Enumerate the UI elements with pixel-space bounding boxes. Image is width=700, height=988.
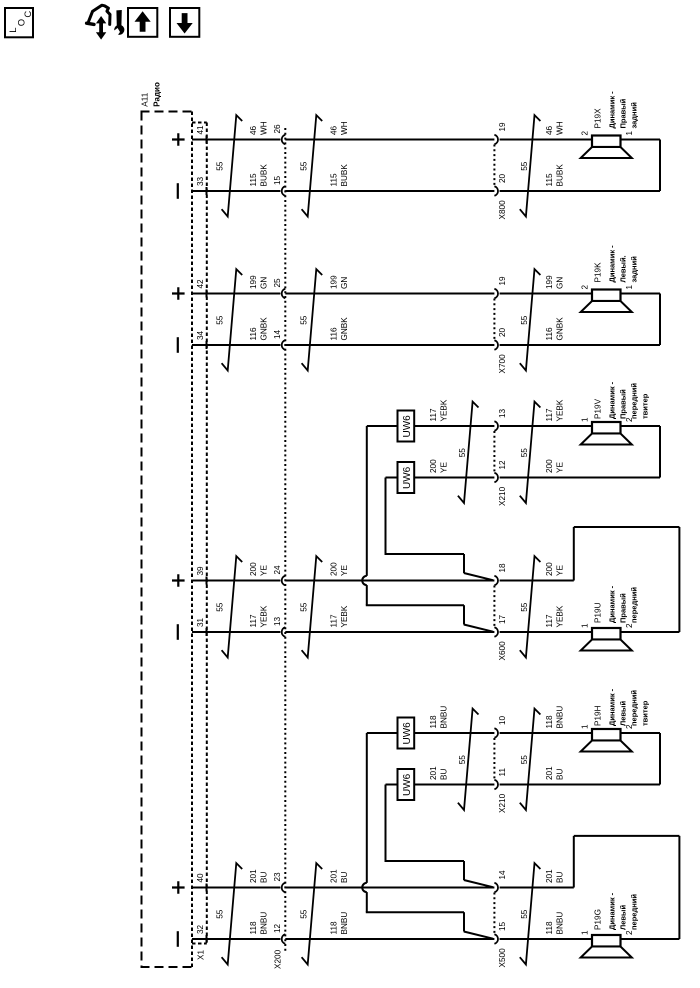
svg-text:UW6: UW6 — [402, 773, 413, 796]
label P19K designator — [594, 262, 603, 283]
label 55 twists radio-X200 — [216, 315, 225, 325]
label 55 twists radio-X200 — [216, 161, 225, 171]
wire 46 WH segment radio-X200 — [192, 139, 280, 141]
svg-text:46: 46 — [249, 125, 258, 135]
wire labels 118 BNBU/201 BU UW6-X210 — [429, 706, 449, 780]
label P19G designator — [594, 909, 603, 930]
pin 25 label — [273, 278, 282, 288]
svg-text:55: 55 — [458, 448, 467, 458]
wire 116 GNBK segment radio-X200 — [192, 344, 280, 346]
label X210 — [498, 793, 507, 813]
wire 199 GN segment radio-X200 — [192, 293, 280, 295]
label P19H designator — [594, 705, 603, 726]
svg-text:11: 11 — [498, 768, 507, 777]
wire labels 201 BU/118 BNBU seg B — [330, 869, 350, 935]
pin tick 39 — [206, 577, 208, 585]
pin 1 label at P19K — [625, 285, 634, 290]
splice branch wire 118 BNBU jog to pin 15 — [366, 912, 493, 939]
wire return vertical — [659, 294, 661, 346]
pin 18 label — [498, 563, 507, 573]
svg-text:Правый: Правый — [619, 389, 628, 419]
label P19V designator — [594, 398, 603, 419]
label X200 — [274, 949, 283, 969]
svg-text:118: 118 — [545, 715, 554, 728]
svg-text:P19X: P19X — [594, 108, 603, 129]
svg-text:55: 55 — [300, 602, 309, 612]
svg-text:115: 115 — [330, 173, 339, 186]
pin 39 label — [196, 566, 205, 576]
label 55 twists UW6-X210 — [458, 448, 467, 458]
wire 117 YEBK segment radio-X200 — [192, 631, 280, 633]
wire labels 201 BU/118 BNBU seg A — [249, 869, 269, 935]
svg-text:UW6: UW6 — [402, 415, 413, 438]
twisted pair marker after X210 — [520, 709, 541, 810]
svg-text:12: 12 — [498, 460, 507, 470]
twisted pair marker after X500 — [520, 863, 541, 964]
twisted pair marker after X700 — [520, 269, 541, 370]
svg-text:55: 55 — [216, 602, 225, 612]
speaker P19K — [581, 290, 632, 313]
svg-text:115: 115 — [545, 173, 554, 186]
connector X500 pin 15 terminal — [494, 934, 498, 944]
splice branch wire 201 BU jog to pin 14 — [385, 861, 494, 887]
label 55 twists after X500 — [520, 909, 529, 919]
svg-text:55: 55 — [458, 755, 467, 765]
svg-text:BUBK: BUBK — [260, 164, 269, 187]
pin tick 34 — [206, 341, 208, 349]
svg-text:42: 42 — [196, 279, 205, 289]
wire 115 BUBK segment X800-return — [500, 190, 660, 192]
svg-text:19: 19 — [498, 276, 507, 286]
pin 42 label — [196, 279, 205, 289]
pin 2 label at P19V — [625, 417, 634, 422]
svg-text:201: 201 — [545, 766, 554, 780]
svg-text:199: 199 — [330, 275, 339, 289]
connector X210 dotted line — [493, 431, 495, 473]
wire labels 118 BNBU/201 BU seg C — [545, 706, 565, 780]
label 55 twists after X600 — [520, 602, 529, 612]
label A11 — [141, 92, 150, 106]
svg-text:201: 201 — [545, 869, 554, 883]
svg-text:200: 200 — [330, 562, 339, 576]
pin tick 33 — [206, 187, 208, 195]
pin 1 label at P19G — [581, 930, 590, 935]
svg-text:BUBK: BUBK — [340, 164, 349, 187]
pin 2 label at P19X — [581, 131, 590, 136]
wire 116 GNBK segment X700-return — [500, 344, 660, 346]
wire 117 YEBK segment X210-speaker — [500, 425, 592, 427]
pin 2 label at P19U — [625, 623, 634, 628]
radio pin + (terminal 41) — [172, 133, 185, 146]
connector X1 dashed box — [192, 123, 207, 944]
svg-text:55: 55 — [520, 755, 529, 765]
splice branch wire 200 YE vertical (UW6 lower) — [386, 478, 398, 555]
twisted pair marker radio-X200 — [222, 269, 243, 370]
svg-text:17: 17 — [498, 614, 507, 624]
pin 14 label — [498, 870, 507, 880]
wire 46 WH segment X200-X800 — [285, 139, 494, 141]
wire labels 199 GN/116 GNBK seg C — [545, 275, 565, 341]
pin 24 label — [273, 565, 282, 575]
label X700 — [498, 354, 507, 374]
svg-text:BU: BU — [340, 872, 349, 883]
wire 201 BU segment X210-return — [500, 784, 660, 786]
wire 200 YE segment X200-X600 — [285, 580, 494, 582]
svg-text:YEBK: YEBK — [340, 605, 349, 627]
label X800 — [498, 200, 507, 220]
wire loop top — [574, 526, 680, 528]
connector X200 pin 13 terminal — [282, 627, 286, 637]
svg-text:BUBK: BUBK — [556, 164, 565, 187]
svg-text:BNBU: BNBU — [340, 912, 349, 935]
svg-text:55: 55 — [520, 909, 529, 919]
svg-text:X600: X600 — [498, 641, 507, 661]
speaker P19X — [581, 136, 632, 159]
svg-text:задний: задний — [630, 102, 639, 129]
label P19K description — [608, 245, 639, 283]
svg-text:P19G: P19G — [594, 909, 603, 930]
label X500 — [498, 948, 507, 968]
twisted pair marker X200-X500 — [302, 863, 323, 964]
pin 12 label — [273, 923, 282, 933]
label P19X description — [608, 91, 639, 129]
icon scroll-down button — [170, 8, 199, 37]
svg-text:55: 55 — [300, 909, 309, 919]
svg-text:55: 55 — [300, 315, 309, 325]
wire loop left vertical — [573, 527, 575, 581]
svg-text:передний: передний — [630, 383, 639, 419]
svg-text:201: 201 — [429, 766, 438, 780]
svg-text:UW6: UW6 — [402, 466, 413, 489]
wire 46 WH segment X800-speaker — [500, 139, 592, 141]
svg-text:18: 18 — [498, 563, 507, 573]
splice UW6 (upper) — [398, 411, 415, 442]
label P19H description — [608, 688, 650, 726]
svg-text:YEBK: YEBK — [556, 605, 565, 627]
svg-text:14: 14 — [498, 870, 507, 880]
svg-text:116: 116 — [330, 327, 339, 340]
svg-text:2: 2 — [581, 131, 590, 136]
svg-text:13: 13 — [498, 408, 507, 418]
pin 20 label — [498, 327, 507, 337]
label 55 twists after X210 — [520, 448, 529, 458]
svg-text:GNBK: GNBK — [556, 317, 565, 341]
svg-text:26: 26 — [273, 124, 282, 134]
twisted pair marker after X210 — [520, 402, 541, 503]
wire labels 199 GN/116 GNBK seg B — [330, 275, 350, 341]
pin tick 31 — [206, 628, 208, 636]
label 55 twists X200-X700 — [300, 315, 309, 325]
svg-text:31: 31 — [196, 617, 205, 627]
radio pin + (terminal 40) — [172, 881, 185, 894]
pin tick 41 — [206, 136, 208, 144]
svg-text:задний: задний — [630, 256, 639, 283]
svg-text:24: 24 — [273, 565, 282, 575]
svg-text:20: 20 — [498, 173, 507, 183]
svg-text:WH: WH — [340, 121, 349, 135]
wire 201 BU segment radio-X200 — [192, 887, 280, 889]
radio pin + (terminal 39) — [172, 574, 185, 587]
svg-text:118: 118 — [330, 921, 339, 934]
svg-text:34: 34 — [196, 330, 205, 340]
svg-text:Правый: Правый — [619, 593, 628, 623]
svg-text:117: 117 — [545, 408, 554, 421]
connector X700 pin 19 terminal — [494, 289, 498, 299]
pin 23 label — [273, 872, 282, 882]
wire 117 YEBK speaker to return — [621, 425, 661, 427]
svg-text:46: 46 — [330, 125, 339, 135]
connector X600 pin 18 terminal — [494, 576, 498, 586]
label X1 — [197, 950, 206, 960]
svg-text:115: 115 — [249, 173, 258, 186]
pin 33 label — [196, 176, 205, 186]
svg-text:P19V: P19V — [594, 398, 603, 419]
pin 10 label — [498, 715, 507, 725]
splice branch wire 201 BU vertical (UW6 lower) — [386, 785, 398, 862]
svg-text:YE: YE — [440, 462, 449, 473]
wire 116 GNBK segment X200-X700 — [285, 344, 494, 346]
icon LOC box — [5, 8, 34, 37]
connector X800 dotted line — [493, 145, 495, 187]
wire 201 BU UW6-X210 — [414, 784, 494, 786]
pin tick 40 — [206, 884, 208, 892]
svg-text:Радио: Радио — [153, 82, 162, 107]
label P19U designator — [594, 602, 603, 623]
pin 11 label — [498, 768, 507, 777]
svg-text:55: 55 — [520, 315, 529, 325]
wire 117 YEBK segment X200-X600 — [285, 631, 494, 633]
svg-text:BU: BU — [260, 872, 269, 883]
svg-text:X210: X210 — [498, 486, 507, 506]
pin 1 label at P19X — [625, 131, 634, 136]
svg-text:200: 200 — [429, 459, 438, 473]
svg-text:YEBK: YEBK — [440, 399, 449, 421]
pin 19 label — [498, 276, 507, 286]
svg-text:1: 1 — [625, 285, 634, 290]
connector X200 pin 24 terminal — [282, 576, 286, 586]
label 55 twists radio-X200 — [216, 909, 225, 919]
wire labels 200 YE/117 YEBK seg C — [545, 562, 565, 628]
pin tick 32 — [206, 935, 208, 943]
svg-text:15: 15 — [273, 175, 282, 185]
wire 118 BNBU speaker to return — [621, 732, 661, 734]
wire 199 GN segment X700-speaker — [500, 293, 592, 295]
svg-text:BNBU: BNBU — [440, 706, 449, 729]
pin 17 label — [498, 614, 507, 624]
wire labels 200 YE/117 YEBK seg B — [330, 562, 350, 628]
wire 199 GN speaker to return — [621, 293, 661, 295]
svg-text:YEBK: YEBK — [556, 399, 565, 421]
label 55 twists UW6-X210 — [458, 755, 467, 765]
svg-text:Динамик -: Динамик - — [608, 585, 617, 623]
svg-text:YE: YE — [556, 462, 565, 473]
connector X700 dotted line — [493, 299, 495, 341]
wire return vertical — [659, 140, 661, 192]
svg-text:15: 15 — [498, 921, 507, 931]
svg-text:P19H: P19H — [594, 705, 603, 726]
svg-text:BU: BU — [556, 872, 565, 883]
svg-text:BNBU: BNBU — [556, 912, 565, 935]
pin 1 label at P19V — [581, 417, 590, 422]
svg-text:116: 116 — [545, 327, 554, 340]
splice UW6 (lower) — [398, 769, 415, 800]
svg-text:X500: X500 — [498, 948, 507, 968]
svg-text:200: 200 — [545, 459, 554, 473]
svg-text:55: 55 — [520, 602, 529, 612]
wire 117 YEBK UW6-X210 — [414, 425, 494, 427]
svg-text:X210: X210 — [498, 793, 507, 813]
connector X500 dotted line — [493, 893, 495, 935]
wire speaker pin2 to loop — [621, 938, 680, 940]
svg-text:117: 117 — [429, 408, 438, 421]
wire hop over 201 BU — [362, 883, 367, 892]
wire labels 200 YE/117 YEBK seg A — [249, 562, 269, 628]
svg-text:передний: передний — [630, 894, 639, 930]
wire labels 199 GN/116 GNBK seg A — [249, 275, 269, 341]
svg-text:2: 2 — [581, 285, 590, 290]
svg-text:L: L — [8, 28, 19, 33]
pin 34 label — [196, 330, 205, 340]
pin 41 label — [196, 125, 205, 135]
svg-text:Правый: Правый — [619, 98, 628, 128]
wire labels 46 WH/115 BUBK seg C — [545, 121, 565, 186]
svg-text:YEBK: YEBK — [260, 605, 269, 627]
connector X210 pin 11 terminal — [494, 780, 498, 790]
svg-text:BU: BU — [556, 769, 565, 780]
svg-text:X800: X800 — [498, 200, 507, 220]
twisted pair marker X200-X800 — [302, 115, 323, 216]
svg-text:BNBU: BNBU — [556, 706, 565, 729]
wire 118 BNBU segment radio-X200 — [192, 938, 280, 940]
wire 201 BU segment X200-X500 — [285, 887, 494, 889]
pin 15 label — [273, 175, 282, 185]
pin 15 label — [498, 921, 507, 931]
svg-text:55: 55 — [216, 161, 225, 171]
pin 12 label — [498, 460, 507, 470]
svg-text:YE: YE — [556, 565, 565, 576]
splice branch wire 200 YE jog to pin 18 — [385, 554, 494, 580]
label 55 twists X200-X600 — [300, 602, 309, 612]
svg-text:1: 1 — [625, 131, 634, 136]
splice UW6 (upper) — [398, 718, 415, 749]
label P19V description — [608, 381, 650, 419]
svg-text:55: 55 — [300, 161, 309, 171]
svg-text:1: 1 — [581, 623, 590, 628]
svg-text:GN: GN — [340, 277, 349, 289]
wire labels 46 WH/115 BUBK seg A — [249, 121, 269, 186]
pin tick 42 — [206, 290, 208, 298]
wire 46 WH speaker to return — [621, 139, 661, 141]
svg-text:Динамик -: Динамик - — [608, 688, 617, 726]
speaker P19G — [581, 935, 632, 958]
speaker P19H — [581, 729, 632, 752]
label 55 twists after X700 — [520, 315, 529, 325]
connector X200 pin 25 terminal — [282, 289, 286, 299]
svg-text:20: 20 — [498, 327, 507, 337]
label 55 twists X200-X800 — [300, 161, 309, 171]
svg-text:Левый.: Левый. — [619, 255, 628, 282]
twisted pair marker X200-X600 — [302, 556, 323, 657]
svg-text:YE: YE — [340, 565, 349, 576]
svg-text:GNBK: GNBK — [260, 317, 269, 341]
connector X210 pin 13 terminal — [494, 421, 498, 431]
wire 117 YEBK segment X600-speaker — [500, 631, 592, 633]
connector X200 pin 23 terminal — [282, 883, 286, 893]
radio pin - (terminal 32) — [177, 931, 179, 947]
svg-text:A11: A11 — [141, 92, 150, 106]
connector X210 dotted line — [493, 738, 495, 780]
radio pin - (terminal 33) — [177, 183, 179, 199]
label P19U description — [608, 585, 639, 623]
wire loop left vertical — [573, 836, 575, 888]
svg-text:1: 1 — [581, 724, 590, 729]
svg-text:13: 13 — [273, 616, 282, 626]
wire 200 YE segment X600-loop — [500, 580, 574, 582]
svg-text:201: 201 — [249, 869, 258, 883]
svg-text:118: 118 — [429, 715, 438, 728]
svg-text:14: 14 — [273, 329, 282, 339]
svg-text:Динамик -: Динамик - — [608, 381, 617, 419]
svg-text:40: 40 — [196, 873, 205, 883]
svg-text:117: 117 — [330, 614, 339, 627]
svg-text:Динамик -: Динамик - — [608, 892, 617, 930]
svg-text:39: 39 — [196, 566, 205, 576]
wire 118 BNBU segment X500-speaker — [500, 938, 592, 940]
pin 1 label at P19H — [581, 724, 590, 729]
pin 19 label — [498, 122, 507, 132]
svg-text:1: 1 — [581, 417, 590, 422]
wire 118 BNBU segment X200-X500 — [285, 938, 494, 940]
connector X200 dotted line — [284, 128, 286, 952]
svg-text:передний: передний — [630, 690, 639, 726]
pin 31 label — [196, 617, 205, 627]
svg-text:12: 12 — [273, 923, 282, 933]
svg-text:GNBK: GNBK — [340, 317, 349, 341]
connector X200 pin 12 terminal — [282, 934, 286, 944]
svg-text:C: C — [23, 11, 34, 18]
pin 32 label — [196, 924, 205, 934]
svg-text:твитер: твитер — [641, 393, 650, 419]
label 55 twists X200-X500 — [300, 909, 309, 919]
wire labels 201 BU/118 BNBU seg C — [545, 869, 565, 935]
svg-text:GN: GN — [260, 277, 269, 289]
svg-text:33: 33 — [196, 176, 205, 186]
icon service-tool (outline, double arrow, wrench) — [87, 5, 125, 39]
pin 1 label at P19U — [581, 623, 590, 628]
wire labels 117 YEBK/200 YE seg C — [545, 399, 565, 473]
svg-text:32: 32 — [196, 924, 205, 934]
svg-text:116: 116 — [249, 327, 258, 340]
svg-text:X200: X200 — [274, 949, 283, 969]
wire 115 BUBK segment radio-X200 — [192, 190, 280, 192]
twisted pair marker radio-X200 — [222, 556, 243, 657]
svg-text:P19K: P19K — [594, 262, 603, 283]
radio pin - (terminal 31) — [177, 624, 179, 640]
pin 2 label at P19G — [625, 930, 634, 935]
svg-text:23: 23 — [273, 872, 282, 882]
pin 40 label — [196, 873, 205, 883]
twisted pair marker UW6-X210 — [458, 709, 479, 810]
connector X200 pin 14 terminal — [282, 340, 286, 350]
wire 118 BNBU UW6-X210 — [414, 732, 494, 734]
connector X210 pin 12 terminal — [494, 473, 498, 483]
svg-text:46: 46 — [545, 125, 554, 135]
connector X800 pin 19 terminal — [494, 135, 498, 145]
label 55 twists after X800 — [520, 161, 529, 171]
wire return vertical — [659, 426, 661, 478]
svg-text:X1: X1 — [197, 950, 206, 960]
icon scroll-up button — [128, 8, 157, 37]
